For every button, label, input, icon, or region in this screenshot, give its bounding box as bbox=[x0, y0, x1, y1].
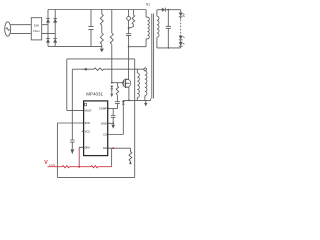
svg-text:Filter: Filter bbox=[33, 29, 40, 33]
svg-text:V: V bbox=[44, 160, 48, 166]
svg-text:N1: N1 bbox=[146, 3, 150, 7]
svg-text:EMI: EMI bbox=[34, 23, 40, 27]
svg-text:CS: CS bbox=[103, 132, 107, 136]
svg-text:COMP: COMP bbox=[99, 107, 107, 111]
svg-text:ZCD: ZCD bbox=[85, 121, 91, 125]
svg-text:VCC: VCC bbox=[85, 129, 91, 133]
svg-text:GD: GD bbox=[103, 146, 107, 150]
svg-text:2-10V: 2-10V bbox=[49, 164, 56, 167]
svg-text:DIM: DIM bbox=[85, 145, 91, 149]
svg-text:MULT: MULT bbox=[85, 109, 92, 113]
svg-text:MP4031: MP4031 bbox=[86, 92, 103, 97]
svg-text:GND: GND bbox=[101, 121, 107, 125]
